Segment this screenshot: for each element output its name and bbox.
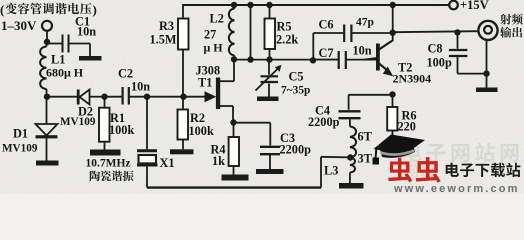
ground RF output (476, 88, 498, 93)
watermark site name CJK (446, 163, 521, 177)
ground D1 (36, 161, 59, 166)
svg-text:MV109: MV109 (60, 116, 96, 128)
svg-text:C7: C7 (319, 46, 334, 60)
svg-text:47p: 47p (356, 17, 374, 29)
capacitor C8 stem (457, 32, 459, 48)
inductor L3 upper 6T section (350, 127, 356, 158)
svg-text:C8: C8 (428, 42, 443, 56)
inductor L2 (234, 5, 236, 9)
transistor T1 J308 JFET gate arrow (205, 91, 217, 102)
svg-text:μ H: μ H (204, 41, 224, 55)
node X1 top (144, 94, 150, 100)
wire gate bus to R3 node (147, 96, 184, 98)
wire C6 left (313, 32, 343, 34)
svg-text:7~35p: 7~35p (281, 85, 310, 97)
node L3 tap 3T (347, 154, 353, 160)
svg-text:L2: L2 (210, 12, 224, 26)
ground C1 (79, 56, 102, 61)
node drain tank junction (231, 56, 237, 62)
svg-text:C6: C6 (319, 18, 334, 32)
connector RF output outer (478, 21, 497, 40)
transistor T2 collector lead (379, 40, 393, 50)
label RF output CJK shepin (500, 14, 522, 25)
node L1 top junction (44, 39, 50, 45)
svg-text:D1: D1 (13, 127, 28, 141)
wire to C2 (105, 96, 123, 98)
wire R2 bottom (182, 140, 184, 150)
node L1 bottom junction (44, 94, 50, 100)
label RF output CJK shuchu (500, 27, 522, 38)
connector RF output center pin (484, 26, 492, 34)
capacitor C5 arrow (256, 68, 280, 91)
wire R5 bottom stem (269, 49, 271, 60)
wire D1 to ground (46, 138, 48, 160)
svg-text:+15V: +15V (460, 0, 489, 12)
svg-text:100k: 100k (189, 124, 214, 138)
svg-text:10.7MHz: 10.7MHz (86, 158, 131, 170)
capacitor C1 plates (62, 35, 64, 53)
capacitor C5 bottom stem (268, 84, 270, 97)
svg-text:): ) (93, 2, 97, 17)
wire R4 stem (233, 123, 235, 138)
diode D2 varactor (77, 90, 80, 105)
wire gate into T1 (184, 96, 208, 98)
node R5 top (266, 2, 272, 8)
svg-text:10n: 10n (77, 25, 96, 39)
svg-text:1k: 1k (212, 154, 225, 168)
crystal X1 10.7MHz resonator (137, 149, 157, 152)
node emitter junction (389, 91, 395, 97)
svg-text:6T: 6T (358, 130, 373, 144)
wire bottom rail (147, 186, 321, 188)
wire R6 top stem (392, 95, 394, 108)
watermark red bug 2 (416, 157, 441, 183)
capacitor C4 plates (339, 110, 361, 112)
watermark ghost text (403, 143, 518, 163)
node L2 top (231, 2, 237, 8)
inductor L1 (46, 42, 48, 47)
ground R2 (170, 149, 194, 154)
svg-text:2N3904: 2N3904 (393, 72, 432, 86)
svg-text:220: 220 (398, 120, 416, 134)
inductor L3 top stem (349, 120, 351, 127)
node gate R3 R2 junction (180, 94, 186, 100)
wire R3 top corner (182, 4, 184, 19)
svg-text:27: 27 (204, 28, 216, 42)
svg-text:MV109: MV109 (2, 143, 38, 155)
resistor R1 (99, 108, 110, 142)
watermark red bug 1 (388, 158, 412, 183)
wire C7 right to base (346, 59, 376, 61)
wire C1 right (69, 43, 90, 45)
wire X1 bottom to rail (146, 166, 148, 188)
diode D1 varactor (36, 124, 58, 136)
svg-text:1–30V: 1–30V (1, 18, 37, 33)
ground C3 (256, 169, 284, 174)
wire C3 bottom (269, 155, 271, 169)
ground R1 (90, 150, 121, 156)
node collector C6 junction (390, 30, 396, 36)
svg-text:L1: L1 (51, 53, 65, 67)
wire gate bus left (47, 96, 78, 98)
svg-text:R2: R2 (190, 111, 205, 125)
wire R6 bottom stem (392, 131, 394, 142)
resistor R2 (178, 110, 189, 140)
svg-text:1.5M: 1.5M (150, 33, 177, 47)
wire to L3 tap (321, 156, 350, 159)
wire R4 bottom (233, 166, 235, 175)
wire top +15V supply rail (183, 4, 449, 6)
node R1 top (101, 94, 107, 100)
resistor R3 (178, 19, 189, 50)
svg-text:(: ( (0, 2, 4, 17)
wire R1 bottom (104, 142, 106, 150)
wire X1 stem (146, 97, 148, 150)
svg-text:R5: R5 (277, 20, 292, 34)
transistor T2 emitter lead with arrow (379, 64, 386, 70)
wire C6 right (352, 32, 393, 34)
node collector rail top (390, 2, 396, 8)
svg-text:10n: 10n (353, 44, 372, 58)
capacitor C8 plates (449, 49, 468, 51)
svg-text:100k: 100k (109, 123, 134, 137)
node R5 bottom C5 top (266, 56, 272, 62)
svg-text:10n: 10n (131, 80, 150, 94)
wire source node bus (230, 119, 236, 125)
wire R5 top stem (269, 5, 271, 19)
capacitor C2 plates (121, 87, 123, 105)
svg-text:R3: R3 (159, 19, 174, 33)
svg-text:2200p: 2200p (280, 143, 312, 157)
wire to C1 (47, 43, 62, 45)
node RF C8 ground junction (483, 70, 489, 76)
wire C6 riser (312, 33, 314, 60)
wire R3 bottom to gate node (182, 50, 184, 97)
wire C2 right (129, 96, 147, 98)
transistor T1 source lead (220, 105, 234, 107)
wire C7 left (313, 59, 338, 61)
wire collector out bus (393, 31, 478, 32)
wire R1 top stem (104, 97, 106, 108)
svg-text:680μ H: 680μ H (46, 66, 84, 80)
ground R4 (222, 175, 249, 181)
capacitor C6 plates (343, 25, 345, 43)
node C8 top (454, 29, 460, 35)
node wire x250 bottom (247, 56, 253, 62)
terminal 1-30V circle (42, 21, 52, 31)
capacitor C5 plates (261, 75, 279, 77)
capacitor C5 variable stem (268, 60, 270, 75)
wire D2 to R1 node (90, 96, 105, 98)
svg-text:X1: X1 (160, 156, 175, 170)
wire L3 bottom (349, 173, 351, 184)
wire C3 drop (269, 123, 271, 146)
ground C5 (257, 97, 279, 102)
node C6 C7 junction (310, 57, 316, 63)
svg-text:2200p: 2200p (308, 115, 340, 129)
svg-text:100p: 100p (427, 56, 452, 70)
svg-text:T1: T1 (198, 76, 212, 90)
svg-text:www.eeworm.com: www.eeworm.com (393, 183, 519, 194)
wire rail riser (320, 157, 322, 188)
wire C4 drop (348, 95, 350, 110)
svg-text:2.2k: 2.2k (276, 33, 298, 47)
capacitor C3 plates (260, 146, 280, 148)
watermark ghost text row2 (405, 164, 433, 178)
label ceramic resonator CJK (90, 171, 134, 182)
resistor R4 (229, 137, 239, 166)
wire R2 stem (182, 97, 184, 110)
wire emitter node left to C4 (349, 94, 393, 96)
inductor L3 lower 3T section (350, 158, 355, 173)
wire collector drop from rail (392, 5, 394, 41)
transistor T1 channel bar (216, 78, 220, 110)
wire rail drop x250 (250, 5, 252, 60)
watermark hat (373, 135, 426, 165)
terminal +15V circle (449, 1, 458, 10)
svg-text:3T: 3T (358, 152, 373, 166)
transistor T2 base bar (376, 44, 380, 71)
svg-text:L3: L3 (324, 164, 338, 178)
svg-text:C5: C5 (289, 70, 304, 84)
svg-text:C2: C2 (118, 67, 133, 81)
capacitor C7 plates (338, 51, 340, 69)
wire RF shield drop (486, 40, 488, 88)
capacitor C8 bottom (457, 57, 459, 74)
ground L3 (339, 183, 364, 189)
wire tank bus (234, 59, 339, 61)
resistor R5 (265, 19, 276, 50)
resistor R6 (387, 107, 397, 131)
wire terminal down (46, 31, 48, 42)
node wire x250 top (247, 2, 253, 8)
transistor T1 drain lead (220, 80, 235, 82)
wire D1 down (46, 97, 48, 124)
